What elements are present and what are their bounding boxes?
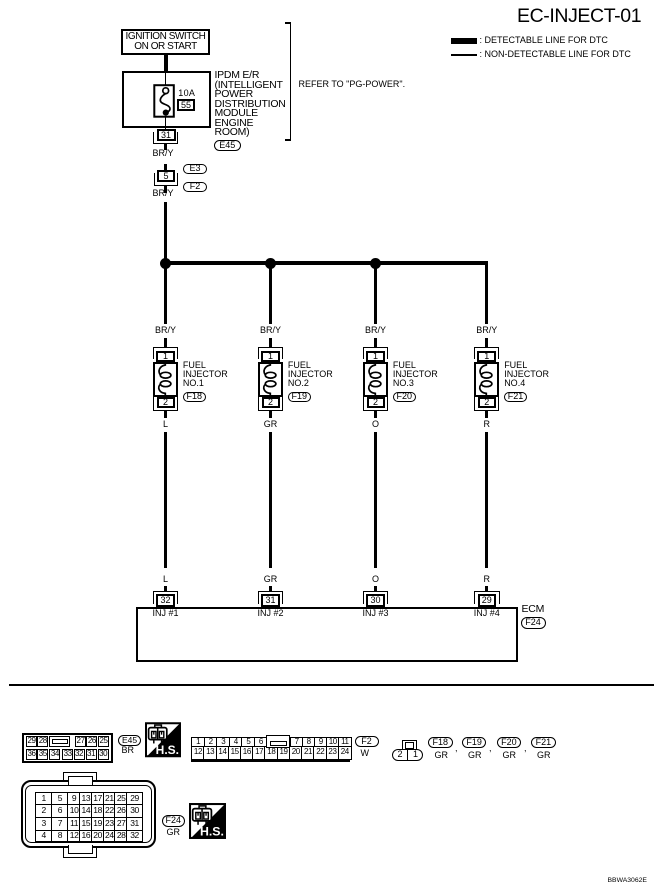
svg-text:H.S.: H.S. (199, 824, 223, 838)
svg-text:H.S.: H.S. (156, 743, 179, 757)
